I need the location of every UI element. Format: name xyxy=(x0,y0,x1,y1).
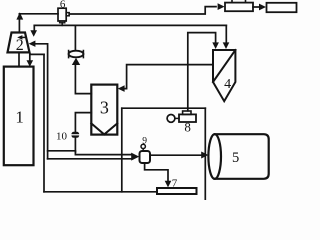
enclosure top edge xyxy=(122,107,206,109)
wire 2 bottom to 1 xyxy=(18,52,20,66)
svg-text:6: 6 xyxy=(60,0,66,10)
svg-text:9: 9 xyxy=(142,137,147,147)
svg-text:5: 5 xyxy=(232,150,239,166)
wire linker xyxy=(48,150,76,152)
wire valve to 3 left upper xyxy=(75,65,91,94)
svg-text:7: 7 xyxy=(172,178,178,190)
svg-text:4: 4 xyxy=(224,77,231,92)
wire 8 riser to 4 xyxy=(188,33,216,111)
arrow into 4 right top xyxy=(223,42,230,49)
tank 1 xyxy=(4,67,34,166)
wire A to B xyxy=(253,6,259,8)
funnel in 3 xyxy=(91,123,117,134)
wire pump drain to 7 xyxy=(145,163,168,181)
enclosure right edge xyxy=(204,108,206,199)
wire top line to 6 xyxy=(19,13,58,15)
svg-text:8: 8 xyxy=(184,120,191,135)
box A ticks xyxy=(232,0,246,2)
wire 3 left lower stub xyxy=(75,113,91,152)
box B xyxy=(267,3,297,12)
scrubber 2 xyxy=(8,33,30,53)
arrow into box B xyxy=(259,4,266,11)
box A xyxy=(225,3,253,12)
wire top right line xyxy=(69,7,216,14)
tray 7 xyxy=(157,188,197,194)
wire 2 right inlet line xyxy=(32,44,48,159)
wire right branch down to 4 xyxy=(225,25,227,42)
arrow into 2 right edge xyxy=(29,41,36,47)
arrow into pump 9 xyxy=(131,153,139,161)
wire 2-top riser xyxy=(18,14,20,33)
arrow into 3 right xyxy=(118,85,125,92)
valve (ellipse) xyxy=(69,51,84,58)
fan 6 xyxy=(58,8,66,21)
wire return riser xyxy=(43,54,45,191)
svg-text:10: 10 xyxy=(56,131,68,143)
wire left branch down to 2 xyxy=(33,25,35,30)
arrow onto 7 xyxy=(165,181,172,188)
tank 5 body xyxy=(215,134,269,179)
wire 4 to 3 xyxy=(121,65,213,89)
arrow into box A xyxy=(218,3,225,10)
arrow into 1 top xyxy=(27,60,34,67)
valve 10 xyxy=(71,132,79,138)
wire pump to 5 xyxy=(150,154,201,156)
arrow down at 2 top xyxy=(30,30,37,37)
separator 4 xyxy=(213,50,235,101)
arrow up into valve xyxy=(72,58,80,65)
wire pipe lower to pump xyxy=(48,158,133,160)
arrow into 4 left top xyxy=(212,42,219,49)
wire recycle line y25 xyxy=(34,24,226,26)
diagonal in 4 xyxy=(213,50,235,82)
pump 9 xyxy=(140,151,151,163)
wire branch down to valve xyxy=(74,25,76,50)
tank 5 left ellipse xyxy=(208,134,221,179)
wire 6 outlet stub xyxy=(61,23,63,26)
wire to 1 top xyxy=(30,54,44,60)
tower 3 xyxy=(91,85,117,135)
arrow up at riser top xyxy=(16,12,23,19)
wire valve10 to pump xyxy=(75,152,132,155)
svg-text:3: 3 xyxy=(100,97,109,117)
gauge 8 xyxy=(167,115,175,123)
wire bottom long line xyxy=(44,191,157,193)
arrow into 5 xyxy=(201,152,208,159)
svg-text:1: 1 xyxy=(15,108,24,127)
enclosure left edge xyxy=(121,108,123,192)
arrow inside 2 xyxy=(21,36,25,38)
